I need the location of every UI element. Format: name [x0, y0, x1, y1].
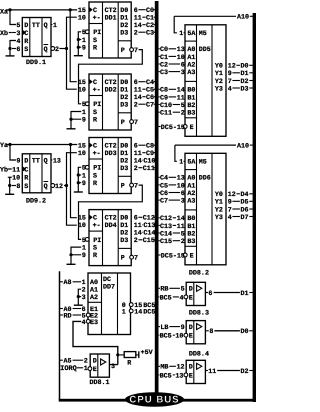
svg-text:D: D — [24, 157, 28, 165]
node DD7 pin3 — [77, 295, 80, 298]
wire to D0 — [214, 330, 240, 332]
svg-text:7: 7 — [134, 255, 138, 263]
svg-text:3: 3 — [181, 69, 185, 77]
svg-text:13: 13 — [175, 372, 183, 380]
wire DD7 pins 2-3 bracket — [78, 289, 81, 296]
svg-text:4: 4 — [228, 85, 232, 93]
svg-text:10: 10 — [175, 333, 183, 341]
svg-text:C15: C15 — [160, 238, 172, 246]
svg-text:P: P — [121, 255, 125, 263]
svg-text:8: 8 — [16, 183, 20, 191]
node DD8.1 output / pull-up junction — [116, 353, 119, 356]
svg-text:D7: D7 — [241, 214, 249, 222]
svg-text:BC5: BC5 — [160, 372, 172, 380]
svg-text:R: R — [93, 180, 97, 188]
svg-text:P: P — [121, 183, 125, 191]
svg-text:R: R — [93, 252, 97, 260]
wire DD9.1 Q-bar to DD1/DD2 +- inputs — [67, 17, 77, 89]
svg-text:DC5-15: DC5-15 — [161, 124, 185, 132]
svg-text:2: 2 — [55, 46, 59, 54]
svg-text:3: 3 — [181, 198, 185, 206]
DD8.4 inverted enable bubble — [184, 373, 188, 377]
DD7 output 0 bubble — [129, 303, 133, 307]
svg-text:C15: C15 — [143, 237, 155, 245]
wire DD4 S-R bracket — [71, 247, 81, 255]
wire DD9.2 R-S bracket — [10, 177, 12, 185]
svg-text:4: 4 — [82, 319, 86, 327]
buffer gate DD8.4 — [186, 360, 205, 383]
svg-text:C7: C7 — [160, 198, 168, 206]
DD2 P carry output bubble — [130, 120, 134, 124]
wire A10 horizontal (DD6) — [175, 144, 236, 146]
svg-text:6: 6 — [208, 290, 212, 298]
wire Xb to DD9.1 C input — [9, 32, 12, 34]
svg-text:+-: +- — [93, 222, 101, 230]
wire DD8.1 output pin 3 — [109, 364, 117, 366]
node Q-bar junction on Y +- feeder — [65, 184, 68, 187]
svg-text:3: 3 — [16, 30, 20, 38]
DD1 clock marker — [89, 7, 92, 12]
node Xa branch to DD2 clock — [69, 8, 72, 11]
DD8.3 buffer triangle symbol — [197, 324, 202, 330]
net BC5 to DD8.4 E — [158, 374, 161, 376]
svg-text:2: 2 — [134, 165, 138, 173]
svg-text:R: R — [24, 175, 28, 183]
flip-flop DD9.2 — [22, 154, 51, 193]
node DD2 R — [69, 118, 72, 121]
wire R to +5V — [136, 354, 139, 356]
svg-text:2: 2 — [181, 110, 185, 118]
DD3 clock marker — [89, 143, 92, 148]
wire to D2 — [217, 370, 240, 372]
svg-text:M5: M5 — [199, 159, 207, 167]
svg-text:D3: D3 — [120, 30, 128, 38]
svg-text:DD6: DD6 — [199, 175, 211, 183]
DD8.2 inverted enable bubble — [184, 295, 188, 299]
ground stub DD1 — [77, 47, 79, 56]
DD4 PI inverted input bubble — [85, 238, 89, 242]
svg-text:C11: C11 — [160, 110, 172, 118]
DD9.1 clock input marker — [23, 30, 26, 35]
wire DD1 PI-S-R bracket — [78, 32, 81, 47]
svg-text:1: 1 — [122, 308, 126, 316]
counter DD4 (CT2) — [89, 210, 131, 266]
svg-text:10: 10 — [78, 15, 86, 23]
svg-text:10: 10 — [78, 87, 86, 95]
svg-text:1: 1 — [179, 30, 183, 38]
svg-text:10: 10 — [78, 150, 86, 158]
svg-text:DC5-15: DC5-15 — [161, 252, 185, 260]
svg-text:9: 9 — [181, 324, 185, 332]
svg-text:C3: C3 — [146, 30, 154, 38]
svg-text:Q: Q — [44, 183, 48, 191]
svg-text:10: 10 — [78, 222, 86, 230]
svg-text:RD: RD — [64, 312, 72, 320]
node Ya branch to DD4 clock — [69, 143, 72, 146]
svg-text:2: 2 — [181, 238, 185, 246]
wire DD3 carry P7 to DD4 PI — [79, 185, 143, 239]
wire to D1 — [214, 292, 240, 294]
svg-text:2: 2 — [134, 30, 138, 38]
DD9.1 inverted Q-bar output bubble — [51, 47, 55, 51]
DD7 E2 inverted bubble — [86, 313, 90, 317]
wire DD3 PI-S-R bracket — [78, 167, 81, 182]
counter DD1 (CT2) — [89, 2, 131, 58]
svg-text:DC5: DC5 — [143, 308, 155, 316]
CPU bus vertical bar (internal data bus, left) — [155, 1, 159, 393]
svg-text:10: 10 — [12, 175, 20, 183]
svg-text:6: 6 — [16, 46, 20, 54]
svg-text:DD5: DD5 — [199, 46, 211, 54]
node DD9.2 S junction — [8, 184, 11, 187]
node DD3 S — [77, 173, 80, 176]
svg-text:+5V: +5V — [141, 349, 153, 357]
svg-text:9: 9 — [82, 117, 86, 125]
svg-text:D: D — [189, 286, 193, 294]
svg-text:DD8.1: DD8.1 — [90, 379, 110, 387]
svg-text:5: 5 — [181, 286, 185, 294]
DD2 clock marker — [89, 79, 92, 84]
node DD4 R — [69, 253, 72, 256]
svg-text:D: D — [189, 324, 193, 332]
wire DD9.2 Q-bar to DD3/DD4 +- inputs — [67, 153, 77, 226]
left feeder bus wire — [59, 271, 61, 399]
ground stub DD2 — [70, 119, 72, 129]
svg-text:E: E — [93, 366, 97, 374]
svg-text:9: 9 — [16, 157, 20, 165]
svg-text:C11: C11 — [143, 165, 155, 173]
svg-text:2: 2 — [134, 237, 138, 245]
wire DD1 carry P7 to DD2 PI — [79, 50, 143, 104]
svg-text:C: C — [24, 166, 28, 174]
svg-text:C: C — [24, 30, 28, 38]
svg-text:DD9.2: DD9.2 — [26, 198, 46, 206]
svg-text:D3: D3 — [241, 85, 249, 93]
DD9.2 inverted Q-bar output bubble — [51, 184, 55, 188]
DD5 enable bubble — [183, 125, 187, 129]
svg-text:E: E — [189, 372, 193, 380]
svg-text:DD4: DD4 — [105, 222, 117, 230]
svg-text:11: 11 — [208, 368, 216, 376]
wire DD8.2 output — [206, 292, 208, 294]
svg-text:D: D — [24, 22, 28, 30]
node Xa junction — [8, 8, 11, 11]
wire DD8.3 output — [206, 330, 209, 332]
svg-text:CPU BUS: CPU BUS — [129, 395, 179, 406]
net RD input to DD7 E2 — [60, 314, 63, 316]
svg-text:A2: A2 — [90, 294, 98, 302]
svg-text:DD8.4: DD8.4 — [189, 350, 209, 358]
net A0 input to DD7 E1 — [60, 308, 63, 310]
DD1 P carry output bubble — [130, 48, 134, 52]
svg-text:8: 8 — [209, 328, 213, 336]
svg-text:9: 9 — [82, 45, 86, 53]
svg-text:+-: +- — [93, 150, 101, 158]
node Ya junction — [8, 143, 11, 146]
svg-text:Y3: Y3 — [215, 214, 223, 222]
DD4 P carry output bubble — [130, 255, 134, 259]
decoder DD7 (DC) — [88, 273, 131, 335]
svg-text:Y3: Y3 — [215, 85, 223, 93]
ground stub DD4 — [70, 255, 72, 264]
net A8 input to DD7 — [60, 281, 63, 283]
svg-text:MB: MB — [160, 364, 168, 372]
net RB input — [159, 287, 160, 289]
DD1 PI inverted input bubble — [85, 30, 89, 34]
svg-text:D3: D3 — [120, 102, 128, 110]
svg-text:D1: D1 — [241, 290, 249, 298]
svg-text:B3: B3 — [187, 238, 195, 246]
wire Xa down to DD9.1 D input — [10, 10, 16, 25]
svg-text:TT: TT — [32, 157, 40, 165]
svg-text:R: R — [93, 45, 97, 53]
counter DD3 (CT2) — [89, 138, 131, 194]
net BC5 to DD8.2 E — [158, 296, 161, 298]
svg-text:C3: C3 — [160, 69, 168, 77]
DD2 PI inverted input bubble — [85, 102, 89, 106]
svg-text:RB: RB — [160, 286, 168, 294]
resistor R pull-up — [120, 354, 125, 356]
svg-text:D0: D0 — [241, 328, 249, 336]
svg-text:+-: +- — [93, 87, 101, 95]
DD3 P carry output bubble — [130, 183, 134, 187]
svg-text:DD3: DD3 — [105, 150, 117, 158]
DD9.1 Q-bar overbar — [44, 44, 49, 46]
buffer gate DD8.3 — [186, 321, 205, 344]
DD8.4 buffer triangle symbol — [197, 363, 202, 369]
svg-text:Q: Q — [44, 157, 48, 165]
buffer gate DD8.1 — [90, 354, 109, 377]
svg-text:1: 1 — [84, 365, 88, 373]
buffer gate DD8.2 — [186, 282, 205, 305]
svg-text:DD7: DD7 — [103, 284, 115, 292]
ground stub DD7 — [77, 297, 79, 306]
svg-text:B3: B3 — [187, 110, 195, 118]
svg-text:D: D — [93, 357, 97, 365]
svg-text:E: E — [190, 124, 194, 132]
+5V power symbol — [138, 351, 140, 358]
node DD9.1 S junction — [8, 47, 11, 50]
svg-text:9: 9 — [82, 180, 86, 188]
wire A10 horizontal — [174, 15, 236, 17]
CPU bus vertical bar (right edge) — [253, 13, 256, 402]
svg-text:7: 7 — [134, 183, 138, 191]
node DD3 R — [77, 181, 80, 184]
svg-text:E: E — [189, 333, 193, 341]
node DD1 R — [77, 46, 80, 49]
wire Ya down to DD9.2 D input — [10, 145, 16, 161]
DD8.1 inverted enable bubble — [88, 367, 92, 371]
svg-text:IORQ: IORQ — [60, 365, 77, 373]
wire DD2 S-R bracket — [71, 112, 81, 120]
node DD1 S — [77, 38, 80, 41]
svg-text:Yb: Yb — [0, 166, 8, 174]
svg-text:R: R — [93, 117, 97, 125]
svg-text:R: R — [24, 38, 28, 46]
svg-text:E: E — [190, 252, 194, 260]
DD6 enable bubble — [183, 253, 187, 257]
CPU bus bottom horizontal line — [59, 399, 256, 402]
svg-text:5A: 5A — [187, 30, 196, 38]
wire DD9.1 R-S bracket — [10, 41, 16, 49]
net BC5 to DD8.3 E — [158, 334, 161, 336]
counter DD2 (CT2) — [89, 74, 131, 130]
DD4 clock marker — [89, 215, 92, 220]
ground stub DD3 — [77, 183, 79, 192]
multiplexer DD5 (M5) — [185, 25, 226, 137]
node Q-bar junction on +- feeder — [65, 47, 68, 50]
svg-text:TT: TT — [32, 22, 40, 30]
svg-text:D2: D2 — [241, 368, 249, 376]
wire Xa to DD1 pin 15 — [6, 9, 77, 11]
svg-text:14: 14 — [134, 308, 142, 316]
CPU BUS badge — [125, 392, 184, 407]
svg-text:9: 9 — [82, 252, 86, 260]
svg-text:S: S — [24, 46, 28, 54]
DD8.1 buffer triangle symbol — [101, 359, 106, 365]
svg-text:2: 2 — [134, 102, 138, 110]
svg-text:R: R — [127, 359, 131, 367]
svg-text:P: P — [121, 119, 125, 127]
svg-text:7: 7 — [134, 119, 138, 127]
wire A10 down to DD5 pin 1 — [174, 16, 177, 33]
svg-text:P: P — [121, 47, 125, 55]
svg-text:7: 7 — [134, 47, 138, 55]
svg-text:1: 1 — [179, 159, 183, 167]
svg-text:A3: A3 — [187, 198, 195, 206]
svg-text:Q: Q — [44, 46, 48, 54]
wire DD9.2 Q-bar pin 12 — [64, 185, 67, 187]
svg-text:LB: LB — [160, 324, 168, 332]
svg-text:Ya: Ya — [0, 142, 8, 150]
svg-text:DD2: DD2 — [105, 87, 117, 95]
svg-text:M5: M5 — [199, 30, 207, 38]
svg-text:D: D — [189, 364, 193, 372]
svg-text:A10: A10 — [237, 14, 249, 22]
DD9.2 Q-bar overbar — [44, 181, 49, 183]
wire DD8.4 output — [206, 370, 208, 372]
svg-text:Q: Q — [44, 22, 48, 30]
wire DD9.1 Q-bar pin 2 — [59, 48, 66, 50]
wire Ya to DD4 pin 15 — [71, 145, 77, 218]
svg-text:12: 12 — [177, 364, 185, 372]
svg-text:A8: A8 — [64, 279, 72, 287]
ground stub DD9.2 — [9, 186, 11, 195]
svg-text:BC5: BC5 — [160, 294, 172, 302]
svg-text:4: 4 — [180, 294, 184, 302]
DD8.2 buffer triangle symbol — [197, 285, 202, 291]
wire DD8.1 output to DD7 E3 — [73, 321, 118, 355]
svg-text:S: S — [24, 183, 28, 191]
svg-text:3: 3 — [111, 363, 115, 371]
svg-text:A10: A10 — [237, 143, 249, 151]
svg-text:1: 1 — [53, 22, 57, 30]
multiplexer DD6 (M5) — [185, 153, 226, 264]
svg-text:5: 5 — [16, 22, 20, 30]
svg-text:4: 4 — [16, 38, 20, 46]
svg-text:13: 13 — [53, 157, 61, 165]
svg-text:3: 3 — [82, 294, 86, 302]
svg-text:4: 4 — [228, 214, 232, 222]
net MB input — [159, 365, 160, 367]
DD8.3 inverted enable bubble — [184, 333, 188, 337]
svg-text:C7: C7 — [146, 102, 154, 110]
wire Ya to DD3 pin 15 — [6, 144, 77, 146]
ground stub DD9.1 — [9, 49, 11, 56]
wire Yb to DD9.2 C input — [9, 168, 12, 170]
wire Xa to DD2 pin 15 — [70, 10, 77, 82]
svg-text:DD8.2: DD8.2 — [189, 269, 209, 277]
net LB input — [159, 326, 160, 328]
svg-text:D3: D3 — [120, 237, 128, 245]
svg-text:11: 11 — [12, 166, 20, 174]
svg-text:5A: 5A — [187, 159, 196, 167]
flip-flop DD9.1 — [22, 18, 51, 57]
svg-text:12: 12 — [55, 183, 63, 191]
vertical from junction up to E3 wire — [117, 355, 119, 365]
svg-text:D3: D3 — [120, 165, 128, 173]
DD9.2 clock input marker — [23, 166, 26, 171]
svg-text:E3: E3 — [90, 319, 98, 327]
DD7 E3 inverted bubble — [86, 320, 90, 324]
svg-text:A3: A3 — [187, 69, 195, 77]
svg-text:E: E — [189, 294, 193, 302]
svg-text:+-: +- — [93, 15, 101, 23]
svg-text:DD1: DD1 — [105, 15, 117, 23]
DD7 output 1 bubble — [129, 309, 133, 313]
svg-text:DD8.3: DD8.3 — [189, 310, 209, 318]
wire A10 down to DD6 pin 1 — [175, 145, 177, 161]
svg-text:BC5: BC5 — [160, 333, 172, 341]
DD3 PI inverted input bubble — [85, 165, 89, 169]
svg-text:DD9.1: DD9.1 — [26, 59, 46, 67]
svg-text:Xb: Xb — [0, 30, 8, 38]
